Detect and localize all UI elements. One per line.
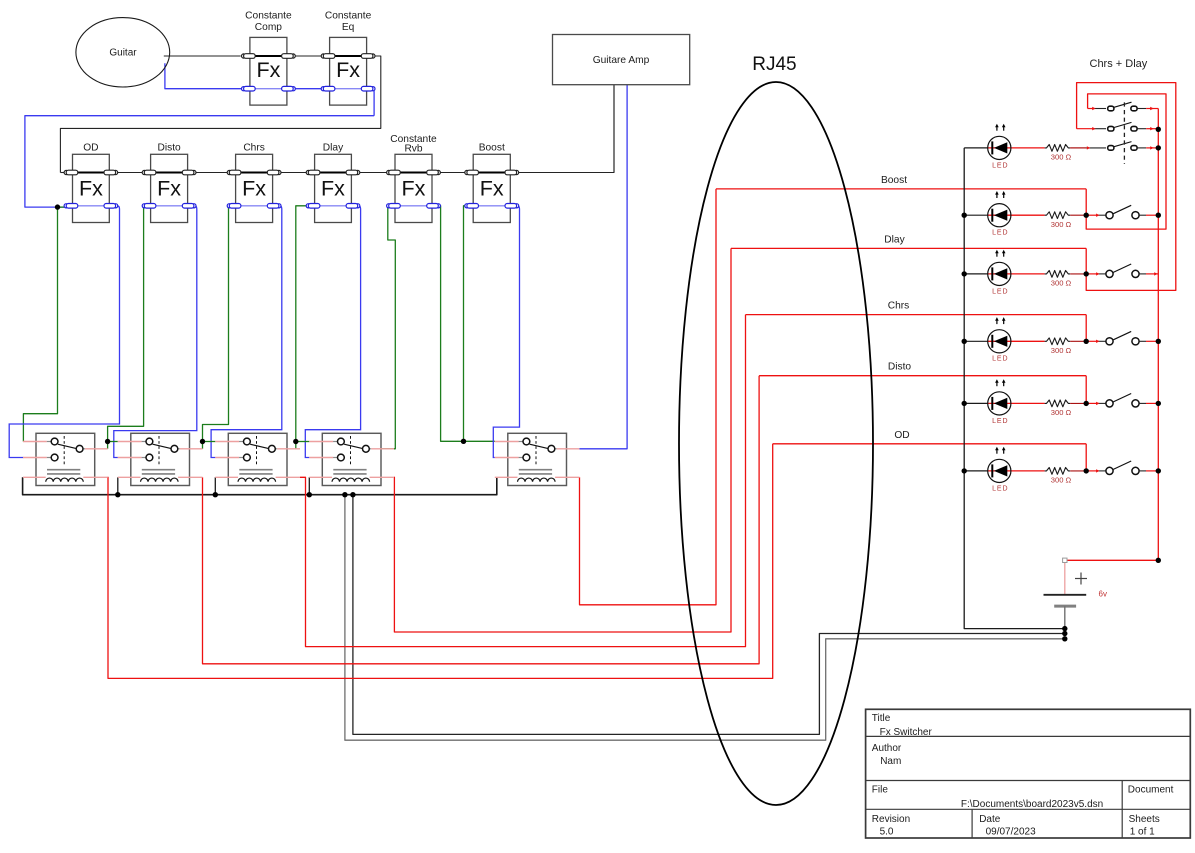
svg-text:LED: LED xyxy=(992,230,1008,237)
svg-text:6v: 6v xyxy=(1099,589,1107,598)
svg-text:Fx: Fx xyxy=(157,177,181,201)
svg-text:Fx: Fx xyxy=(79,177,103,201)
svg-text:OD: OD xyxy=(83,143,98,154)
svg-text:Constante: Constante xyxy=(325,10,372,21)
svg-text:Author: Author xyxy=(872,743,902,754)
svg-text:Comp: Comp xyxy=(255,22,283,33)
svg-text:Eq: Eq xyxy=(342,22,355,33)
svg-text:LED: LED xyxy=(992,418,1008,425)
svg-text:Fx: Fx xyxy=(336,58,360,82)
svg-text:LED: LED xyxy=(992,356,1008,363)
svg-text:Dlay: Dlay xyxy=(323,143,344,154)
svg-text:Fx: Fx xyxy=(256,58,280,82)
svg-text:Constante: Constante xyxy=(245,10,292,21)
svg-text:300 Ω: 300 Ω xyxy=(1051,346,1072,355)
svg-text:09/07/2023: 09/07/2023 xyxy=(986,827,1036,838)
svg-text:Guitare Amp: Guitare Amp xyxy=(593,55,650,66)
svg-text:300 Ω: 300 Ω xyxy=(1051,476,1072,485)
svg-text:Nam: Nam xyxy=(880,756,901,767)
svg-text:LED: LED xyxy=(992,485,1008,492)
svg-text:1 of 1: 1 of 1 xyxy=(1130,827,1155,838)
svg-text:Sheets: Sheets xyxy=(1129,814,1160,825)
svg-text:LED: LED xyxy=(992,162,1008,169)
svg-text:300 Ω: 300 Ω xyxy=(1051,279,1072,288)
svg-text:300 Ω: 300 Ω xyxy=(1051,153,1072,162)
svg-text:Title: Title xyxy=(872,713,891,724)
svg-text:Document: Document xyxy=(1128,785,1174,796)
svg-text:300 Ω: 300 Ω xyxy=(1051,408,1072,417)
svg-text:Guitar: Guitar xyxy=(109,47,137,58)
svg-text:RJ45: RJ45 xyxy=(752,54,796,75)
svg-text:Dlay: Dlay xyxy=(884,234,905,245)
svg-text:Boost: Boost xyxy=(881,175,907,186)
svg-text:Fx: Fx xyxy=(242,177,266,201)
svg-text:F:\Documents\board2023v5.dsn: F:\Documents\board2023v5.dsn xyxy=(961,799,1103,810)
svg-text:Fx: Fx xyxy=(402,177,426,201)
svg-text:File: File xyxy=(872,785,889,796)
svg-text:5.0: 5.0 xyxy=(880,827,894,838)
svg-text:Revision: Revision xyxy=(872,814,910,825)
svg-text:Disto: Disto xyxy=(888,362,912,373)
svg-text:Chrs: Chrs xyxy=(243,143,265,154)
svg-text:Fx: Fx xyxy=(480,177,504,201)
svg-text:Chrs + Dlay: Chrs + Dlay xyxy=(1090,58,1148,70)
svg-text:Date: Date xyxy=(979,814,1001,825)
svg-text:Disto: Disto xyxy=(157,143,181,154)
svg-text:Rvb: Rvb xyxy=(404,144,422,155)
svg-text:OD: OD xyxy=(894,430,909,441)
svg-text:LED: LED xyxy=(992,288,1008,295)
svg-text:Fx: Fx xyxy=(321,177,345,201)
svg-text:300 Ω: 300 Ω xyxy=(1051,220,1072,229)
svg-text:Boost: Boost xyxy=(479,143,505,154)
svg-text:Chrs: Chrs xyxy=(888,301,910,312)
svg-text:Fx Switcher: Fx Switcher xyxy=(880,727,933,738)
